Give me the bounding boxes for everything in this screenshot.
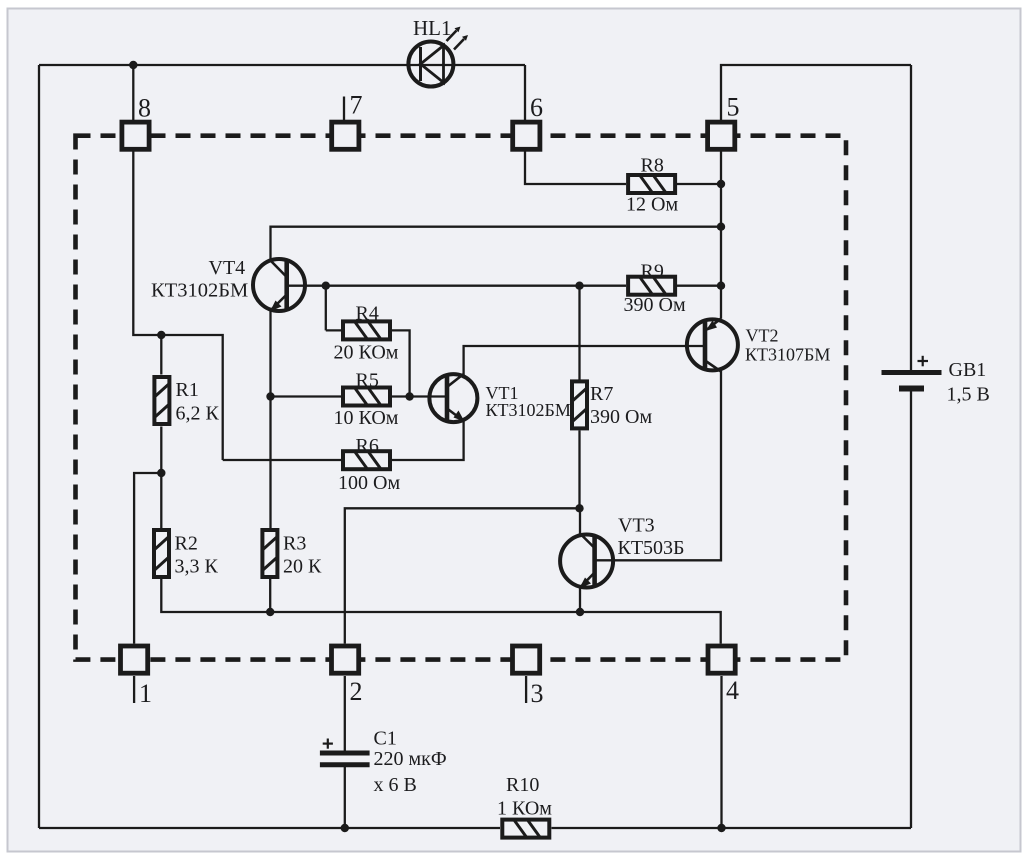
svg-text:GB1: GB1 bbox=[949, 359, 987, 381]
node: junction R4 riser on base rail bbox=[322, 282, 330, 290]
wire: R7 bottom lead to VT3 collector node bbox=[578, 431, 580, 509]
svg-text:12 Ом: 12 Ом bbox=[626, 194, 678, 216]
svg-text:7: 7 bbox=[350, 91, 363, 120]
svg-text:R3: R3 bbox=[283, 533, 306, 555]
wire: pin 2 riser and horizontal to R7 bottom node bbox=[345, 508, 580, 643]
wire: R9 right lead to pin5 column bbox=[677, 285, 721, 287]
svg-text:8: 8 bbox=[138, 94, 151, 123]
capacitor C1 220 mkF x 6 V bbox=[320, 728, 447, 797]
svg-text:R5: R5 bbox=[356, 370, 379, 392]
wire: VT1 collector up and over to VT2 base bbox=[464, 346, 705, 375]
wire: node to pin 1 bbox=[134, 473, 161, 644]
LED HL1 bbox=[408, 16, 468, 87]
node: junction on top rail at pin 8 feed bbox=[129, 61, 137, 69]
transistor VT3 KT503B (npn, base right) bbox=[560, 515, 684, 589]
svg-text:VT2: VT2 bbox=[746, 326, 779, 346]
wire: R6 left lead bbox=[223, 459, 342, 461]
wire: right column from battery - to bottom rail bbox=[910, 391, 912, 828]
wire: R4 left lead riser to base rail bbox=[326, 286, 342, 331]
IC package DD1 dashed outline bbox=[76, 136, 847, 660]
resistor R10 1 KOm bbox=[497, 774, 552, 838]
wire: right column from top rail to battery + bbox=[910, 65, 912, 370]
resistor R8 12 Om bbox=[626, 155, 678, 216]
svg-text:R4: R4 bbox=[356, 303, 379, 325]
wire: left outer column bbox=[38, 65, 40, 828]
svg-text:R2: R2 bbox=[175, 533, 198, 555]
node: junction R4 drop / R5-VT1 base bbox=[405, 392, 413, 400]
wire: R5 left lead bbox=[271, 395, 343, 397]
resistor R5 10 KOm bbox=[334, 370, 399, 430]
wire: R5 right lead to VT1 base bbox=[391, 395, 447, 397]
resistor R2 3,3 K bbox=[154, 530, 219, 578]
wire: VT4 base rail to R9 left bbox=[287, 285, 626, 287]
svg-text:10 КОм: 10 КОм bbox=[334, 407, 399, 429]
pin 5 bbox=[708, 93, 740, 150]
wire: R6 right lead to VT1 emitter bbox=[391, 421, 464, 460]
wire: R4 right lead and drop to R5 line bbox=[391, 330, 410, 396]
resistor R6 100 Om bbox=[338, 435, 400, 494]
wire: R3 bottom lead bbox=[269, 579, 271, 612]
node: junction VT3 emitter on emitter bus bbox=[576, 608, 584, 616]
resistor R4 20 KOm bbox=[334, 303, 399, 364]
pin 4 bbox=[708, 646, 739, 705]
svg-text:3,3 К: 3,3 К bbox=[175, 556, 219, 578]
pin 3 bbox=[513, 646, 544, 708]
svg-text:6,2 К: 6,2 К bbox=[176, 403, 220, 425]
node: junction R7 riser on base rail bbox=[575, 282, 583, 290]
pin 2 bbox=[332, 646, 363, 706]
svg-text:КТ3107БМ: КТ3107БМ bbox=[745, 345, 830, 365]
pin 6 bbox=[513, 93, 543, 149]
svg-text:x 6 В: x 6 В bbox=[374, 774, 417, 796]
wire: R1 top lead bbox=[160, 335, 162, 375]
resistor R7 390 Om (vertical) bbox=[572, 381, 652, 428]
wire: pin 2 down to C1 top plate bbox=[344, 676, 346, 751]
wire: R7 top lead from base rail bbox=[578, 286, 580, 380]
svg-text:390 Ом: 390 Ом bbox=[624, 294, 686, 316]
wire: pin 6 drop from top rail bbox=[524, 65, 526, 120]
wire: bottom ground rail right of R10 bbox=[552, 827, 912, 829]
svg-text:VT3: VT3 bbox=[618, 515, 655, 537]
svg-text:2: 2 bbox=[350, 677, 363, 706]
wire: VT3 collector stub bbox=[579, 508, 581, 534]
svg-text:1: 1 bbox=[139, 679, 152, 708]
wire: pin 6 drop to R8 left lead bbox=[525, 152, 626, 185]
node: junction R1/R2/pin1 bbox=[157, 469, 165, 477]
resistor R3 20 K bbox=[262, 530, 322, 578]
svg-text:220 мкФ: 220 мкФ bbox=[374, 748, 447, 770]
pin 7 bbox=[332, 91, 363, 150]
wire: pin 8 feed from top rail bbox=[132, 65, 134, 120]
wire: VT3 emitter stub to emitter bus bbox=[579, 588, 581, 613]
wire: bottom ground rail left of R10 bbox=[39, 827, 500, 829]
svg-text:1,5 В: 1,5 В bbox=[947, 384, 990, 406]
node: junction VT4 emitter / R5 left bbox=[266, 392, 274, 400]
resistor R1 6,2 K bbox=[154, 377, 219, 425]
resistor R9 390 Om bbox=[624, 261, 686, 317]
node: junction C1 on bottom rail bbox=[341, 824, 349, 832]
wire: R8 right lead bbox=[677, 183, 721, 185]
wire: C1 bottom plate to bottom rail bbox=[344, 767, 346, 828]
svg-text:390 Ом: 390 Ом bbox=[590, 406, 652, 428]
svg-text:КТ3102БМ: КТ3102БМ bbox=[486, 400, 571, 420]
wire: VT2 collector down to VT3 base corner bbox=[595, 371, 721, 561]
svg-text:КТ3102БМ: КТ3102БМ bbox=[151, 280, 248, 302]
transistor VT1 KT3102BM (npn, faces right) bbox=[429, 374, 570, 422]
svg-text:КТ503Б: КТ503Б bbox=[618, 537, 685, 559]
wire: pin 5 riser and top-right rail to battery column bbox=[721, 65, 911, 120]
node: junction R7 bottom / pin2 branch / VT3 collector bbox=[575, 504, 583, 512]
battery GB1 1,5 V bbox=[882, 356, 990, 406]
node: junction R3 bottom on emitter bus bbox=[266, 608, 274, 616]
svg-text:R8: R8 bbox=[641, 155, 664, 177]
svg-text:20 К: 20 К bbox=[283, 556, 322, 578]
node: junction R1 top bbox=[157, 331, 165, 339]
svg-text:5: 5 bbox=[727, 93, 740, 122]
svg-text:R9: R9 bbox=[641, 261, 664, 283]
node: junction R8 right on pin5 column bbox=[717, 180, 725, 188]
wire: R1 bottom lead to node bbox=[160, 427, 162, 474]
transistor VT2 KT3107BM (pnp, emitter up) bbox=[687, 319, 830, 372]
wire: R2 top lead bbox=[160, 473, 162, 528]
node: junction top horizontal on pin5 column bbox=[717, 223, 725, 231]
pin 1 bbox=[121, 646, 152, 708]
svg-text:1 КОм: 1 КОм bbox=[497, 798, 552, 820]
svg-text:R10: R10 bbox=[506, 774, 539, 796]
svg-text:3: 3 bbox=[531, 679, 544, 708]
svg-text:HL1: HL1 bbox=[413, 16, 452, 40]
wire: pin 4 down to bottom rail bbox=[720, 676, 722, 828]
wire: pin 8 down to R1 branch, over to R6 branch bbox=[133, 152, 222, 461]
svg-text:R7: R7 bbox=[590, 383, 613, 405]
node: junction pin4 column on bottom rail bbox=[717, 824, 725, 832]
svg-text:R6: R6 bbox=[356, 435, 379, 457]
svg-text:20 КОм: 20 КОм bbox=[334, 342, 399, 364]
svg-text:R1: R1 bbox=[176, 379, 199, 401]
node: junction R9 right on pin5 column bbox=[717, 282, 725, 290]
svg-text:VT4: VT4 bbox=[209, 257, 246, 279]
wire: pin5 column down to VT2 emitter bbox=[720, 152, 722, 319]
wire: VT4 emitter down through R5 node to R3 top bbox=[269, 311, 271, 529]
svg-text:4: 4 bbox=[726, 676, 739, 705]
svg-text:6: 6 bbox=[530, 93, 543, 122]
wire: R2 bottom lead and emitter bus to pin 4 bbox=[161, 579, 720, 644]
svg-text:C1: C1 bbox=[374, 728, 397, 750]
pin 8 bbox=[122, 94, 151, 150]
wire: VT4 collector riser and top horizontal to pin5 column bbox=[271, 227, 722, 260]
wire: top positive rail from left column through HL1 to pin 6 drop bbox=[39, 64, 525, 66]
transistor VT4 KT3102BM (npn, faces left) bbox=[151, 257, 305, 312]
svg-text:100 Ом: 100 Ом bbox=[338, 472, 400, 494]
